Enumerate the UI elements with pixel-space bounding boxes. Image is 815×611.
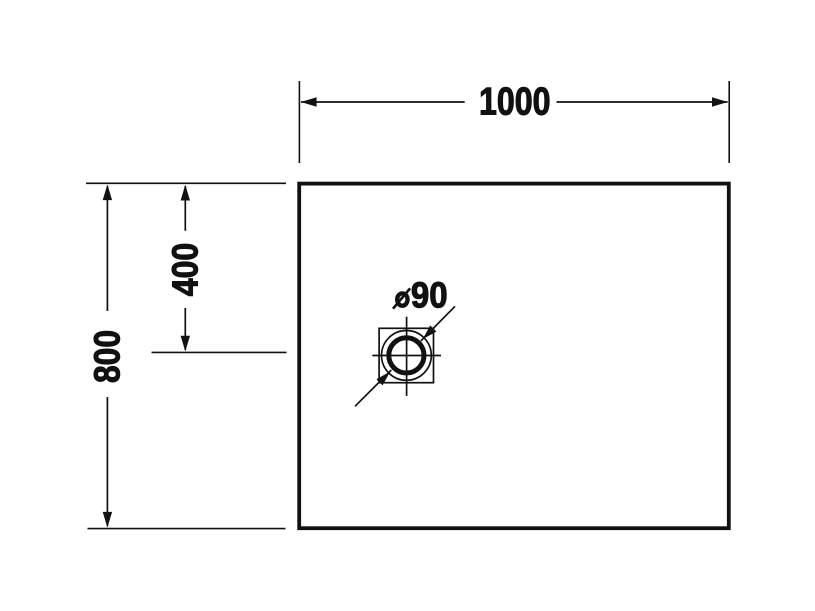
svg-text:800: 800 (87, 330, 128, 383)
svg-text:400: 400 (165, 243, 206, 297)
svg-text:90: 90 (411, 275, 448, 316)
svg-text:1000: 1000 (479, 81, 551, 124)
